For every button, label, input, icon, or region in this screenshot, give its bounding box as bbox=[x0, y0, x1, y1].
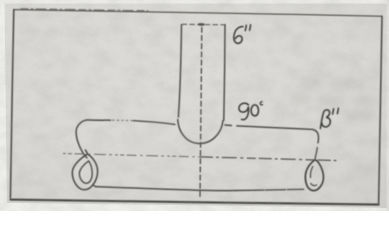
label 90 : 0 bbox=[251, 105, 258, 116]
vertical pipe left line bbox=[178, 25, 181, 117]
label 8 bbox=[320, 110, 330, 129]
left loop exit to bottom line bbox=[93, 185, 96, 187]
junction U bottom bbox=[178, 120, 223, 144]
right top pipe line with hook down bbox=[237, 126, 319, 143]
hook descent lower part (sketch gap) bbox=[315, 148, 317, 159]
small dark blob where centre line meets top dashes bbox=[200, 23, 204, 26]
right top pipe line start dash bbox=[225, 124, 232, 127]
labels: hand written bbox=[234, 25, 339, 128]
photo white edges bbox=[0, 0, 389, 4]
label 8 inch marks bbox=[333, 109, 334, 114]
horizontal dash-dot centre line left half (faint) bbox=[63, 154, 200, 157]
left loop inner bbox=[79, 161, 92, 183]
label 6 inch marks bbox=[245, 25, 246, 30]
left top pipe line right part bbox=[134, 121, 175, 125]
left top pipe line with end curl bbox=[76, 120, 110, 158]
sketchy marks above top border bbox=[21, 9, 148, 11]
faint print-through ghost text bbox=[290, 79, 374, 172]
left top pipe line faded middle bbox=[113, 119, 134, 121]
label 90 : degree bbox=[260, 102, 262, 105]
vertical pipe right line bbox=[224, 25, 225, 121]
vertical dashed centre line bbox=[200, 28, 202, 199]
vertical pipe dashed top edge bbox=[182, 23, 224, 26]
label 6 bbox=[234, 27, 243, 44]
horizontal dash-dot centre line right half bbox=[201, 157, 339, 161]
label 90 : 9 bbox=[239, 103, 249, 119]
right teardrop outer bbox=[305, 160, 323, 191]
right teardrop inner marks bbox=[310, 167, 312, 178]
bottom pipe line left part bbox=[96, 187, 236, 191]
bottom pipe line right part (faded) bbox=[236, 189, 304, 190]
border frame bbox=[14, 10, 382, 17]
left loop outer bbox=[72, 150, 97, 190]
